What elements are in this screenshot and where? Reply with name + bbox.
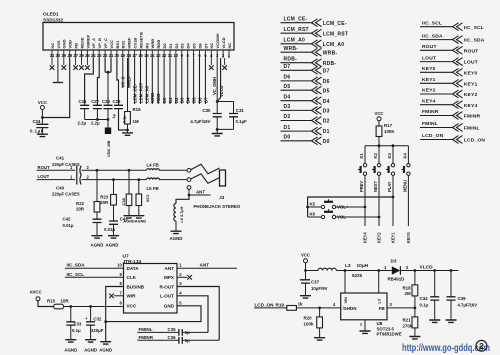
svg-text:R19: R19 — [276, 302, 285, 307]
svg-text:KEY4: KEY4 — [422, 98, 436, 104]
svg-text:LOUT: LOUT — [422, 55, 436, 61]
node junction R19-R20 — [318, 307, 321, 310]
svg-text:C30: C30 — [202, 108, 211, 113]
svg-text:NEXT: NEXT — [373, 181, 378, 192]
svg-text:SOT23-5: SOT23-5 — [377, 326, 395, 331]
svg-text:D4: D4 — [186, 43, 191, 49]
svg-text:24: 24 — [91, 53, 96, 58]
svg-text:10: 10 — [174, 53, 179, 58]
svg-text:LCM_CE-: LCM_CE- — [133, 83, 138, 103]
wire L-OUT to C35 — [177, 296, 208, 333]
svg-text:D4: D4 — [323, 99, 330, 105]
wire net D4 from OLED1 — [187, 58, 189, 104]
svg-text:C33: C33 — [74, 321, 82, 326]
ground below C32 — [85, 340, 96, 342]
svg-text:D7: D7 — [323, 68, 330, 74]
svg-text:VP_C: VP_C — [103, 38, 108, 49]
svg-text:OLED1: OLED1 — [43, 12, 59, 17]
svg-text:FMINL: FMINL — [464, 126, 480, 132]
wire net D2 from OLED1 — [175, 58, 177, 104]
wire net D0 from OLED1 — [163, 58, 165, 104]
svg-text:KEY0: KEY0 — [464, 70, 478, 76]
svg-text:R23: R23 — [100, 194, 108, 199]
svg-text:30: 30 — [56, 53, 61, 58]
svg-text:18: 18 — [126, 53, 131, 58]
svg-text:D3: D3 — [323, 109, 330, 115]
wire net D1 from OLED1 — [169, 58, 171, 104]
pushbutton K2 — [378, 146, 380, 164]
svg-text:VDD: VDD — [68, 40, 73, 49]
node junction VLCD-C39 — [450, 269, 453, 272]
svg-text:VCC: VCC — [38, 100, 47, 105]
resistor R19 1k — [287, 306, 297, 311]
wire L3 to U8 LX pin — [344, 271, 346, 294]
svg-text:U8: U8 — [377, 321, 383, 326]
node junction VCC-C24 — [41, 116, 44, 119]
svg-text:1k: 1k — [298, 301, 303, 306]
inductor L3 10uH — [318, 268, 336, 270]
svg-text:CS1B: CS1B — [133, 38, 138, 49]
wire bracket pins to C28 — [105, 58, 111, 72]
svg-text:D0: D0 — [162, 97, 167, 103]
wire net WRB- from OLED1 — [151, 58, 153, 104]
wire net LCM_A0 from OLED1 — [145, 58, 147, 104]
svg-text:R20: R20 — [304, 315, 313, 320]
svg-text:D6: D6 — [323, 79, 330, 85]
svg-text:WRB-: WRB- — [323, 50, 338, 56]
svg-text:C38: C38 — [121, 197, 126, 205]
svg-text:VSS: VSS — [56, 40, 61, 48]
no-connect X mark at pin x=75.6 — [75, 58, 77, 65]
svg-text:1M: 1M — [133, 119, 139, 124]
node junction R15-C33 — [69, 305, 72, 308]
svg-text:31: 31 — [50, 53, 55, 58]
svg-text:LCM_A0: LCM_A0 — [323, 42, 345, 48]
svg-text:LCM_RST: LCM_RST — [323, 31, 348, 37]
svg-text:AGND: AGND — [123, 218, 135, 223]
svg-text:LCM_A0: LCM_A0 — [144, 85, 149, 103]
svg-text:KEY4: KEY4 — [464, 103, 478, 109]
svg-text:AGND: AGND — [99, 348, 112, 353]
svg-text:VCC: VCC — [301, 252, 310, 257]
svg-text:SSD1332: SSD1332 — [43, 18, 63, 23]
wire net VCOMH — [216, 58, 218, 102]
wire BUSINB pin8 to ground — [106, 287, 124, 342]
svg-text:28: 28 — [67, 53, 72, 58]
svg-text:IIC_SCL: IIC_SCL — [67, 272, 85, 277]
svg-text:D7: D7 — [284, 64, 291, 70]
inductor L5 FB — [147, 178, 160, 180]
ground below L6 — [171, 231, 182, 233]
wire net ANT from U7 — [177, 267, 237, 269]
wire net VLCD — [217, 58, 220, 101]
wire R-OUT to C36 — [177, 287, 219, 341]
svg-text:AVCC: AVCC — [30, 289, 43, 294]
svg-text:100K: 100K — [384, 129, 395, 134]
wire pin to C26 — [85, 58, 94, 105]
IC U7 body — [124, 264, 178, 314]
svg-text:D4: D4 — [284, 94, 291, 100]
wire keypad top bus — [365, 145, 408, 147]
svg-text:FMINR: FMINR — [422, 109, 439, 115]
svg-text:R17: R17 — [384, 123, 393, 128]
svg-text:IIC_SDA: IIC_SDA — [67, 263, 86, 268]
svg-text:AGND: AGND — [135, 218, 147, 223]
svg-text:LCM_CE-: LCM_CE- — [323, 21, 347, 27]
IC U8 body — [341, 293, 387, 320]
capacitor C37 10uF/9V — [305, 271, 307, 280]
svg-text:NC: NC — [50, 43, 55, 49]
svg-text:KEY1: KEY1 — [422, 77, 436, 83]
svg-text:R22: R22 — [76, 201, 84, 206]
svg-text:10μF/9V: 10μF/9V — [311, 286, 328, 291]
capacitor C39 4.7uF/16V — [450, 271, 452, 297]
svg-text:D6: D6 — [284, 75, 291, 81]
wire bus C26-C27-C28 — [85, 119, 108, 121]
ground below R21 — [409, 337, 420, 339]
node junction VLCD-C34 — [433, 269, 436, 272]
svg-text:FB: FB — [379, 306, 386, 311]
svg-text:2M: 2M — [405, 291, 411, 296]
svg-text:HREF: HREF — [127, 76, 132, 88]
ground below C34 — [429, 320, 440, 322]
svg-text:22: 22 — [103, 53, 108, 58]
svg-text:11: 11 — [168, 53, 173, 58]
svg-text:2: 2 — [479, 341, 484, 351]
svg-text:LCM_RST: LCM_RST — [284, 27, 309, 33]
svg-text:C41: C41 — [56, 156, 65, 161]
svg-text:LCM_RST: LCM_RST — [138, 82, 143, 103]
wire VOL matrix left rail — [308, 197, 393, 217]
ground below C39 — [446, 320, 457, 322]
svg-text:220μF CASES: 220μF CASES — [52, 162, 80, 167]
svg-text:VLCD: VLCD — [221, 37, 226, 48]
svg-text:K5: K5 — [310, 201, 316, 206]
node junction LOUT-C39b — [137, 178, 140, 181]
ground below C39b — [133, 216, 144, 218]
svg-text:IIC_SCL: IIC_SCL — [464, 25, 484, 31]
svg-text:5225: 5225 — [352, 273, 363, 278]
wire FB net — [387, 307, 415, 309]
svg-text:D7: D7 — [203, 43, 208, 49]
svg-text:WRB-: WRB- — [284, 46, 299, 52]
no-connect X mark at pin x=52 — [51, 58, 53, 65]
svg-text:IIC_SDA: IIC_SDA — [464, 38, 485, 44]
no-connect X mark right a — [210, 58, 212, 65]
wire net RDB- from OLED1 — [157, 58, 159, 104]
svg-text:KEY4: KEY4 — [363, 232, 368, 243]
svg-text:VCC: VCC — [127, 304, 137, 309]
svg-text:PLAY: PLAY — [387, 181, 392, 192]
svg-text:NC: NC — [227, 43, 232, 49]
svg-text:10R: 10R — [61, 298, 70, 303]
svg-text:WRB-: WRB- — [150, 91, 155, 103]
wire GND pin5 return — [106, 306, 201, 322]
svg-text:0.1μF: 0.1μF — [30, 129, 44, 134]
svg-text:C28: C28 — [102, 99, 110, 104]
svg-text:AGND: AGND — [91, 242, 104, 247]
svg-text:20R: 20R — [100, 200, 109, 205]
svg-text:C39: C39 — [458, 296, 467, 301]
svg-text:AGND: AGND — [170, 236, 183, 241]
svg-text:C34: C34 — [420, 296, 429, 301]
svg-text:D3: D3 — [180, 97, 185, 103]
svg-text:K4: K4 — [403, 153, 408, 159]
svg-text:W/R: W/R — [127, 294, 137, 299]
svg-text:C39: C39 — [146, 195, 151, 203]
node junction pin8 ground rail — [104, 320, 107, 323]
page number circled 2 — [476, 340, 487, 351]
ground below C33 — [65, 340, 76, 342]
svg-text:VCOMH: VCOMH — [215, 33, 220, 48]
svg-text:AGND: AGND — [64, 348, 77, 353]
svg-text:ANT: ANT — [196, 189, 205, 194]
wire VSS pin2 stub with bar — [57, 58, 59, 83]
svg-text:MPX: MPX — [164, 275, 175, 280]
svg-text:D1: D1 — [168, 97, 173, 103]
svg-text:RESE: RESE — [79, 37, 84, 48]
svg-text:0.01μ: 0.01μ — [63, 223, 74, 228]
wire sleeve to ANT node — [188, 189, 190, 195]
svg-text:220μF: 220μF — [91, 328, 104, 333]
wire net LCM_RST from OLED1 — [140, 58, 142, 104]
svg-text:VC_OMH: VC_OMH — [212, 77, 217, 95]
svg-text:D6: D6 — [197, 97, 202, 103]
svg-text:KEY0: KEY0 — [406, 232, 411, 243]
no-connect X mark at pin x=87.4 — [86, 58, 88, 65]
svg-text:L4 FB: L4 FB — [147, 162, 159, 167]
node junction LOUT-R23 — [112, 178, 115, 181]
wire net HREF — [128, 58, 130, 88]
ground below pin8 rail — [100, 342, 111, 344]
svg-text:C35: C35 — [168, 327, 177, 332]
svg-text:D0: D0 — [162, 43, 167, 49]
svg-text:VCC: VCC — [374, 111, 383, 116]
capacitor C34 0.1u — [434, 271, 436, 297]
svg-text:LOUT: LOUT — [464, 60, 478, 66]
no-connect X mark right b — [224, 58, 226, 65]
svg-text:D3: D3 — [284, 104, 291, 110]
wire net D5 from OLED1 — [193, 58, 195, 104]
svg-text:D7: D7 — [203, 97, 208, 103]
svg-text:25: 25 — [85, 53, 90, 58]
svg-text:ANT: ANT — [165, 266, 175, 271]
ground below C38 — [124, 216, 135, 218]
node junction C30 bottom — [216, 128, 219, 131]
svg-text:VP_B: VP_B — [97, 38, 102, 49]
svg-text:R16: R16 — [133, 107, 142, 112]
svg-text:GND: GND — [62, 39, 67, 48]
svg-text:VLCD: VLCD — [420, 264, 434, 270]
resistor R21 270k — [414, 308, 416, 317]
svg-text:/SHDN: /SHDN — [343, 306, 357, 311]
svg-text:15: 15 — [144, 53, 149, 58]
svg-text:10μH: 10μH — [357, 263, 369, 269]
wire pin to C29 — [117, 58, 119, 105]
svg-text:D2: D2 — [174, 43, 179, 49]
svg-text:LCM_CE-: LCM_CE- — [284, 16, 308, 22]
wire net VC_C — [122, 58, 124, 88]
svg-text:VC_C: VC_C — [121, 76, 126, 87]
svg-text:IIC_SCL: IIC_SCL — [422, 20, 442, 26]
svg-text:C31: C31 — [236, 108, 245, 113]
resistor R17 100K — [376, 126, 382, 137]
svg-text:LCM_A0: LCM_A0 — [284, 38, 306, 44]
svg-text:D2: D2 — [323, 119, 330, 125]
svg-text:FMINR: FMINR — [139, 335, 154, 340]
svg-text:R18: R18 — [403, 285, 412, 290]
svg-text:RS: RS — [144, 43, 149, 49]
svg-text:R15: R15 — [47, 298, 56, 303]
svg-text:AGND: AGND — [84, 348, 97, 353]
svg-text:D5: D5 — [284, 84, 291, 90]
svg-text:IIC_SDA: IIC_SDA — [422, 33, 443, 39]
ground below C42 — [92, 236, 103, 238]
node junction diode branch — [377, 269, 380, 272]
svg-text:RESETB: RESETB — [138, 32, 143, 48]
svg-text:DATA: DATA — [127, 266, 140, 271]
svg-text:100k: 100k — [304, 321, 314, 326]
resistor R23 20R — [113, 180, 115, 195]
svg-text:17: 17 — [132, 53, 137, 58]
svg-text:LCD_ON: LCD_ON — [255, 302, 275, 307]
svg-text:2.2μ: 2.2μ — [91, 121, 100, 126]
svg-text:14: 14 — [150, 53, 155, 58]
node junction L3-LX — [344, 269, 347, 272]
ground below C43 — [108, 236, 119, 238]
svg-text:26: 26 — [79, 53, 84, 58]
svg-text:WRB: WRB — [150, 39, 155, 49]
svg-text:2.2μ: 2.2μ — [78, 121, 87, 126]
svg-text:MENU: MENU — [403, 180, 408, 192]
svg-text:L3: L3 — [345, 263, 351, 269]
svg-text:FB: FB — [74, 43, 79, 48]
svg-text:10: 10 — [117, 263, 122, 268]
svg-text:D5: D5 — [323, 88, 330, 94]
svg-text:ANT: ANT — [200, 263, 210, 268]
resistor R22 20R — [96, 170, 98, 201]
svg-text:0.1μF: 0.1μF — [236, 119, 248, 124]
ground below R20 — [314, 338, 325, 340]
ground below U8 — [360, 331, 371, 333]
svg-text:KEY1: KEY1 — [391, 232, 396, 243]
svg-text:C37: C37 — [311, 279, 320, 284]
svg-text:20: 20 — [115, 53, 120, 58]
svg-text:R21: R21 — [403, 317, 412, 322]
ground below C37 — [300, 296, 311, 298]
svg-text:K2: K2 — [373, 153, 378, 159]
wire net D7 from OLED1 — [204, 58, 206, 104]
svg-text:C42: C42 — [63, 216, 71, 221]
svg-text:20R: 20R — [76, 206, 85, 211]
svg-text:0.1μ: 0.1μ — [72, 328, 81, 333]
svg-text:21: 21 — [109, 53, 114, 58]
pushbutton K4 — [407, 146, 409, 164]
svg-text:K1: K1 — [359, 153, 364, 159]
op IC body OLED1 — [43, 23, 234, 51]
svg-text:D3: D3 — [180, 43, 185, 49]
svg-text:4.7μF/16V: 4.7μF/16V — [458, 302, 478, 307]
svg-text:KEY2: KEY2 — [377, 232, 382, 243]
wire diode branch to U8 — [378, 271, 380, 294]
svg-text:FMINR: FMINR — [464, 114, 481, 120]
svg-text:LCD_ON: LCD_ON — [422, 133, 444, 139]
connector J3 phonejack stereo — [187, 168, 191, 172]
svg-text:RDB-: RDB- — [284, 56, 298, 62]
svg-text:D4: D4 — [186, 97, 191, 103]
svg-text:4.7μF/16V: 4.7μF/16V — [190, 119, 210, 124]
svg-text:VIN: VIN — [343, 297, 348, 304]
svg-text:ROUT: ROUT — [464, 48, 479, 54]
svg-text:VDD_MB: VDD_MB — [106, 140, 111, 157]
svg-text:KEY2: KEY2 — [422, 88, 436, 94]
svg-text:220μF CASES: 220μF CASES — [52, 192, 80, 197]
svg-text:C40: C40 — [56, 186, 65, 191]
wire net LCM_CE- from OLED1 — [134, 58, 136, 104]
no-connect X on MPX pin2 — [177, 276, 187, 278]
svg-text:27: 27 — [73, 53, 78, 58]
svg-text:0.1μ: 0.1μ — [420, 303, 429, 308]
svg-text:BUSINB: BUSINB — [127, 284, 145, 289]
svg-text:VCC: VCC — [109, 40, 114, 49]
svg-text:D1: D1 — [168, 43, 173, 49]
svg-text:LX: LX — [377, 298, 382, 303]
svg-text:ROUT: ROUT — [38, 165, 51, 170]
svg-text:BS2: BS2 — [121, 40, 126, 49]
svg-text:KEY0: KEY0 — [422, 66, 436, 72]
svg-text:D5: D5 — [192, 97, 197, 103]
svg-text:K6: K6 — [310, 211, 316, 216]
node junction C32-VCC — [89, 305, 92, 308]
svg-text:29: 29 — [61, 53, 66, 58]
node junction ROUT-R22 — [96, 169, 99, 172]
capacitor C32 220uF — [90, 307, 92, 322]
capacitor C39b — [138, 180, 140, 194]
wire VCOMH to C31 top — [217, 101, 233, 103]
resistor R16 1M — [127, 58, 129, 112]
svg-text:AGND: AGND — [106, 242, 119, 247]
svg-text:D3: D3 — [391, 258, 397, 263]
svg-text:RB491D: RB491D — [388, 276, 405, 281]
svg-text:L5 FB: L5 FB — [147, 186, 159, 191]
svg-text:BS1: BS1 — [115, 40, 120, 49]
svg-text:D0: D0 — [284, 135, 291, 141]
svg-text:PHONEJACK STEREO: PHONEJACK STEREO — [194, 204, 241, 209]
svg-text:D2: D2 — [284, 114, 291, 120]
svg-text:FMINL: FMINL — [422, 121, 438, 127]
svg-text:12: 12 — [162, 53, 167, 58]
svg-text:RDB-: RDB- — [323, 61, 337, 67]
resistor R20 100k — [319, 308, 321, 317]
svg-text:C26: C26 — [79, 99, 87, 104]
svg-text:D5: D5 — [192, 43, 197, 49]
svg-text:U7: U7 — [123, 253, 129, 259]
svg-text:LOUT: LOUT — [38, 174, 50, 179]
wire net D3 from OLED1 — [181, 58, 183, 104]
ground below R16 — [127, 130, 129, 133]
resistor R18 2M — [414, 271, 416, 285]
svg-text:RDB: RDB — [156, 40, 161, 49]
svg-text:GND: GND — [164, 304, 175, 309]
wire VDD pin4 to VCC node — [42, 58, 69, 118]
svg-text:16: 16 — [138, 53, 143, 58]
inductor L6 4.7uH — [174, 204, 176, 222]
wire pin to C27 — [97, 58, 99, 105]
svg-text:PT6851DWE: PT6851DWE — [377, 332, 402, 337]
no-connect X mark at pin x=63.8 — [63, 58, 65, 65]
no-connect X mark at pin x=81.5 — [81, 58, 83, 65]
capacitor C24 0.1uF — [41, 118, 43, 125]
